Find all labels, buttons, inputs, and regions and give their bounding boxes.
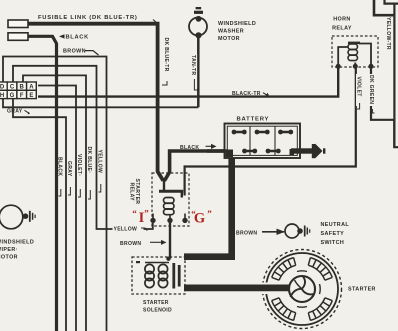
svg-text:BROWN: BROWN [236, 230, 257, 236]
svg-text:BROWN: BROWN [120, 241, 141, 247]
svg-text:VIOLET: VIOLET [355, 77, 361, 98]
svg-text:DK BLUE-TR: DK BLUE-TR [163, 38, 169, 72]
svg-text:A: A [29, 85, 34, 91]
svg-text:BLACK: BLACK [57, 157, 63, 176]
svg-text:E: E [29, 93, 33, 99]
svg-text:DK GREEN: DK GREEN [368, 75, 374, 104]
svg-text:STARTER: STARTER [348, 287, 376, 293]
svg-text:F: F [20, 93, 24, 99]
svg-text:G: G [10, 93, 15, 99]
svg-text:“: “ [132, 209, 137, 219]
svg-text:GRAY: GRAY [7, 109, 23, 115]
svg-text:WASHER: WASHER [218, 29, 244, 35]
svg-text:SOLENOID: SOLENOID [143, 307, 172, 313]
svg-text:”: ” [207, 209, 212, 219]
svg-text:SAFETY: SAFETY [321, 231, 345, 237]
svg-text:STARTER: STARTER [143, 300, 169, 306]
svg-text:YELLOW: YELLOW [114, 227, 138, 233]
svg-text:BLACK: BLACK [180, 145, 199, 151]
svg-text:GRAY: GRAY [66, 161, 72, 177]
svg-text:RELAY: RELAY [332, 26, 352, 32]
svg-text:G: G [194, 211, 205, 227]
svg-text:BROWN: BROWN [63, 48, 86, 54]
svg-text:WINDSHIELD: WINDSHIELD [218, 21, 256, 27]
svg-text:MOTOR: MOTOR [0, 255, 18, 261]
svg-text:WIPER·: WIPER· [0, 247, 18, 253]
svg-text:MOTOR: MOTOR [218, 36, 240, 42]
svg-text:H: H [0, 93, 4, 99]
svg-text:VIOLET·: VIOLET· [76, 154, 82, 176]
svg-text:B: B [20, 85, 25, 91]
svg-text:BLACK: BLACK [66, 35, 90, 41]
svg-text:RELAY: RELAY [129, 183, 135, 202]
svg-text:BLACK-TR: BLACK-TR [232, 91, 261, 97]
svg-text:WINDSHIELD: WINDSHIELD [0, 240, 34, 246]
svg-text:HORN: HORN [333, 17, 350, 23]
svg-text:BATTERY: BATTERY [237, 117, 270, 123]
svg-text:YELLOW-TR: YELLOW-TR [385, 17, 391, 50]
svg-text:NEUTRAL: NEUTRAL [321, 222, 350, 228]
svg-text:”: ” [144, 209, 149, 219]
svg-text:DK BLUE·: DK BLUE· [86, 147, 92, 174]
svg-text:TAN-TR: TAN-TR [190, 55, 196, 75]
svg-text:FUSIBLE LINK (DK BLUE-TR): FUSIBLE LINK (DK BLUE-TR) [38, 15, 138, 21]
svg-text:C: C [10, 85, 15, 91]
svg-text:SWITCH: SWITCH [321, 240, 345, 246]
svg-text:D: D [0, 85, 5, 91]
svg-text:YELLOW: YELLOW [97, 150, 103, 174]
